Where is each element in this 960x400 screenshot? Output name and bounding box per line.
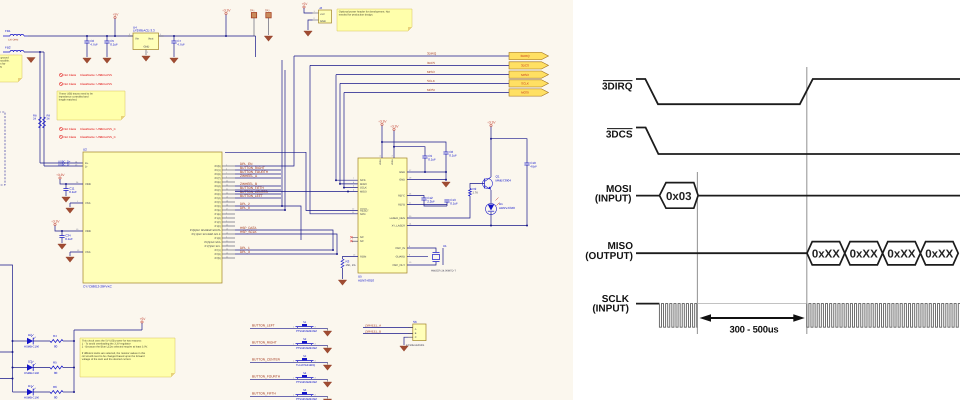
wire +5V rail [28, 36, 256, 57]
power +5V J4 [302, 2, 309, 8]
svg-text:OSC_OUT: OSC_OUT [392, 264, 405, 267]
svg-text:(INPUT): (INPUT) [595, 194, 632, 205]
wire net MISO [336, 74, 509, 76]
capacitor C8 [382, 142, 446, 181]
wire MOSI drop [343, 93, 358, 189]
ground R3 [338, 280, 346, 285]
ground C7 [170, 58, 178, 63]
svg-text:REFB: REFB [398, 204, 405, 207]
net class directive USBCLASS 2 [59, 82, 112, 86]
ground near FB [0, 0, 1, 1]
svg-text:ClassName: USBCLASS_C: ClassName: USBCLASS_C [80, 127, 116, 131]
U2 pin VSS 13 [70, 249, 91, 256]
crystal X1 AWSCR [407, 244, 456, 273]
svg-text:12: 12 [226, 244, 228, 247]
svg-text:80: 80 [54, 395, 58, 399]
svg-text:S1: S1 [303, 321, 307, 324]
svg-text:R5: R5 [53, 360, 57, 364]
wire net SCLK [340, 82, 509, 84]
wire U5 GND pins [407, 171, 447, 181]
svg-text:C: C [415, 336, 417, 339]
note LED power [80, 338, 175, 377]
wire U2 MOSI long [235, 191, 358, 193]
svg-text:MISO: MISO [360, 183, 367, 186]
net label ZWHEEL_B wire [363, 329, 413, 333]
svg-text:BUTTON_LEFT: BUTTON_LEFT [252, 324, 275, 328]
data bubble MISO 0xXX #2 [845, 242, 883, 265]
power +3.3V U2 VDD2 [51, 220, 60, 226]
svg-text:+5V: +5V [302, 2, 309, 6]
svg-text:2 - Because the Blue LEDs sele: 2 - Because the Blue LEDs selected requi… [82, 346, 148, 349]
svg-text:P0[4]: P0[4] [215, 185, 221, 188]
svg-text:Net Class: Net Class [64, 135, 77, 139]
svg-text:0.1uF: 0.1uF [428, 157, 436, 161]
signal label 3DCS [606, 129, 633, 141]
svg-text:P1[6]: P1[6] [215, 213, 221, 216]
svg-text:9: 9 [226, 236, 227, 239]
port SCLK [509, 80, 549, 87]
resistor R3 [341, 257, 358, 280]
net class directive USBCLASS 1 [59, 73, 112, 77]
regulator U4 LP2985 [128, 25, 164, 55]
svg-text:300 - 500us: 300 - 500us [729, 325, 778, 336]
net label BUTTON_FOURTH [240, 170, 269, 174]
wire DPL_2 [235, 206, 301, 240]
svg-text:S4: S4 [303, 372, 307, 375]
svg-text:HSMB-C190: HSMB-C190 [24, 397, 40, 400]
ground TP2 [264, 36, 272, 41]
wire SCLK baseline [636, 303, 659, 305]
ground S6 [400, 346, 408, 351]
svg-text:GUARD: GUARD [396, 255, 405, 258]
note power header [337, 9, 412, 31]
svg-text:P1[1]/GC SCL/BSP-SCLK: P1[1]/GC SCL/BSP-SCLK [192, 233, 221, 236]
U5 top pin labels [379, 155, 394, 166]
wire 3DCS waveform [636, 128, 960, 155]
IC U2 CY7C68013 [83, 148, 222, 289]
svg-text:+3.3V: +3.3V [487, 121, 496, 125]
note grounding [0, 55, 22, 82]
svg-text:4: 4 [226, 212, 227, 215]
wire HSP_SCLK [235, 234, 337, 254]
svg-text:P0[3]: P0[3] [215, 173, 221, 176]
svg-text:(OUTPUT): (OUTPUT) [585, 251, 633, 262]
resistor R6 [50, 385, 75, 400]
svg-text:P2[6]: P2[6] [215, 209, 221, 212]
svg-text:15: 15 [226, 228, 228, 231]
switch S4 BUTTON_FOURTH [250, 372, 328, 384]
U2 pins D+ D- [58, 160, 89, 168]
svg-text:25: 25 [226, 224, 228, 227]
wire encoder common [404, 337, 408, 345]
wire DPL_0 [235, 209, 285, 211]
svg-text:0xXX: 0xXX [812, 249, 840, 261]
svg-text:6: 6 [226, 164, 227, 167]
wire net 3DIRQ [294, 55, 509, 57]
capacitor C5 [104, 39, 118, 46]
svg-text:0xXX: 0xXX [925, 249, 953, 261]
svg-text:VDD: VDD [85, 230, 91, 233]
svg-text:D3: D3 [28, 359, 32, 363]
net class directive USBCLASS_C 1 [59, 127, 115, 131]
wire VDD3 a [381, 126, 383, 158]
svg-text:GND: GND [320, 20, 326, 23]
svg-text:R2: R2 [473, 187, 477, 191]
LED D3 HSMB-C190 [13, 359, 51, 375]
svg-text:voltage of the LED and the des: voltage of the LED and the desired curre… [82, 358, 132, 361]
svg-text:18: 18 [226, 200, 228, 203]
ground C8 [442, 182, 450, 187]
svg-text:21: 21 [226, 188, 228, 191]
svg-text:FB1: FB1 [5, 29, 11, 33]
svg-text:(INPUT): (INPUT) [592, 304, 629, 315]
resistor R5 [50, 360, 75, 375]
svg-text:D4: D4 [28, 384, 32, 388]
svg-text:ClassName: USBCLASS: ClassName: USBCLASS [80, 82, 112, 86]
wire HSP_DATA [235, 230, 333, 250]
svg-text:BUTTON_RIGHT: BUTTON_RIGHT [252, 341, 277, 345]
svg-text:0x03: 0x03 [666, 191, 692, 203]
svg-text:3DIRQ: 3DIRQ [520, 54, 530, 58]
svg-text:LASER_NEN: LASER_NEN [390, 217, 406, 220]
svg-text:R3: R3 [346, 260, 350, 264]
wire SCLK idle level [697, 303, 806, 305]
wire 3DIRQ waveform [636, 79, 960, 104]
data bubble 0x03 [660, 183, 699, 209]
net label ZWHEEL_B [240, 182, 257, 186]
svg-text:2.2uF: 2.2uF [427, 199, 435, 203]
laser diode D1 ADNV-6340 [486, 190, 516, 226]
svg-text:10: 10 [226, 252, 228, 255]
power +5V [113, 13, 120, 19]
wire U2 to U5 RESET [225, 152, 358, 210]
svg-text:ClassName: USBCLASS_C: ClassName: USBCLASS_C [80, 135, 116, 139]
net label HSP_SCLK [240, 230, 258, 234]
svg-text:15K, 1%: 15K, 1% [346, 264, 357, 267]
resistor R4 [50, 334, 75, 349]
capacitor C7 [173, 36, 175, 57]
svg-text:J4: J4 [319, 6, 323, 10]
svg-text:BUTTON_CENTER: BUTTON_CENTER [252, 358, 281, 362]
svg-text:REFC: REFC [398, 195, 405, 198]
svg-text:GND: GND [144, 46, 150, 49]
signal label 3DIRQ [602, 81, 633, 93]
wire bus vertical a [281, 60, 283, 207]
switch S3 BUTTON_CENTER [250, 355, 328, 367]
svg-text:VDD: VDD [85, 183, 91, 186]
wire J4 +5V [304, 8, 313, 13]
svg-text:5: 5 [226, 176, 227, 179]
svg-text:Net Class: Net Class [64, 73, 77, 77]
resistor R8 [33, 115, 41, 129]
svg-text:P1[2]: P1[2] [215, 221, 221, 224]
ground S3 [323, 365, 331, 370]
svg-text:22: 22 [226, 184, 228, 187]
net label ZWHEEL_A [240, 174, 258, 178]
capacitor C7 [171, 39, 185, 46]
power +3.3V [222, 9, 231, 15]
svg-text:NCS: NCS [360, 179, 366, 182]
svg-text:3DCS: 3DCS [606, 130, 633, 141]
switch S5 BUTTON_FIFTH [250, 389, 328, 400]
junction dots on rail [86, 35, 227, 37]
svg-text:27: 27 [226, 208, 228, 211]
ground C34 [58, 244, 66, 249]
svg-text:VDD3: VDD3 [379, 159, 382, 165]
wire SCLK burst 2 [807, 304, 960, 328]
ground VSS1 [66, 208, 74, 213]
svg-text:P1[7]/GC SCL: P1[7]/GC SCL [205, 245, 221, 248]
capacitor C6 [84, 39, 98, 46]
svg-text:SCLK: SCLK [427, 79, 435, 83]
svg-text:8: 8 [226, 168, 227, 171]
svg-text:GND: GND [399, 179, 405, 182]
wire net MOSI [344, 92, 509, 94]
net label DPL_EN [240, 162, 253, 166]
ground C6 [83, 58, 91, 63]
svg-text:DPL_3: DPL_3 [240, 250, 250, 254]
svg-text:20: 20 [226, 192, 228, 195]
svg-text:2: 2 [226, 220, 227, 223]
svg-text:3DCS: 3DCS [427, 61, 435, 65]
svg-text:P2[0]: P2[0] [215, 205, 221, 208]
U2 pin VDD 26 [76, 181, 91, 186]
svg-text:ClassName: USBCLASS: ClassName: USBCLASS [80, 73, 112, 77]
data bubble MISO 0xXX #1 [807, 242, 845, 265]
svg-text:MOSI: MOSI [427, 88, 435, 92]
svg-text:LP2985ACE-3.3: LP2985ACE-3.3 [133, 29, 155, 33]
svg-text:BUTTON_LEFT: BUTTON_LEFT [240, 194, 263, 198]
svg-text:HSMB-C190: HSMB-C190 [24, 372, 40, 375]
svg-text:USBC_D-: USBC_D- [58, 164, 70, 167]
wire +5V LED stem [141, 323, 143, 330]
transistor Q1 MMBT3904 [483, 175, 512, 191]
net label DPL_2 [240, 202, 250, 206]
net label MOSI wire [427, 88, 435, 92]
svg-text:P1[0]: P1[0] [215, 225, 221, 228]
svg-text:Net Class: Net Class [64, 82, 77, 86]
ground FB area [27, 58, 35, 63]
svg-text:+3.3V: +3.3V [222, 9, 231, 13]
svg-text:VSS: VSS [85, 202, 91, 205]
ground VSS2 [66, 257, 74, 262]
U5 pin labels [360, 171, 405, 267]
wire MISO drop [335, 75, 358, 182]
net label BUTTON_LEFT [240, 194, 263, 198]
svg-text:P2[4]: P2[4] [215, 197, 221, 200]
svg-text:0.1uF: 0.1uF [110, 42, 118, 46]
svg-text:P2[1]: P2[1] [215, 249, 221, 252]
svg-text:+5V: +5V [113, 13, 120, 17]
data bubble MISO 0xXX #3 [883, 242, 921, 265]
ground S2 [323, 348, 331, 353]
svg-text:P0[2]: P0[2] [215, 189, 221, 192]
svg-text:VDD3: VDD3 [391, 159, 394, 165]
wire SCLK burst 1 [659, 304, 697, 328]
net label DPL_0 [240, 206, 250, 210]
svg-text:MISO: MISO [521, 73, 529, 77]
capacitor C10 [491, 139, 527, 226]
svg-text:MMBT3904: MMBT3904 [496, 179, 512, 183]
power +3.3V U5 b [390, 125, 399, 131]
svg-text:ADNV-6340: ADNV-6340 [499, 206, 515, 210]
switch S2 BUTTON_RIGHT [250, 338, 328, 350]
svg-text:0.1uF: 0.1uF [450, 201, 458, 205]
net class directive USBCLASS_C 2 [59, 135, 115, 139]
capacitor C5 [106, 36, 108, 57]
resistor R9 [43, 115, 51, 129]
svg-text:BUTTON_FOURTH: BUTTON_FOURTH [252, 375, 281, 379]
svg-text:GND: GND [399, 171, 405, 174]
svg-text:P1[4]: P1[4] [215, 217, 221, 220]
power +3.3V Q1 [487, 121, 496, 127]
svg-text:Net Class: Net Class [64, 127, 77, 131]
svg-text:P0[1]: P0[1] [215, 169, 221, 172]
note USB traces [57, 91, 125, 120]
net label BUTTON_RIGHT [240, 166, 265, 170]
LED D2 HSMB-C190 [13, 333, 51, 349]
svg-text:MOSI: MOSI [521, 91, 529, 95]
svg-text:AWSCR-24.00MTD-T: AWSCR-24.00MTD-T [431, 270, 456, 273]
U2 pin VSS 1 [70, 200, 91, 207]
svg-text:XY_LASER: XY_LASER [392, 225, 406, 228]
svg-text:S5: S5 [303, 389, 307, 392]
capacitor C12 [407, 196, 447, 207]
svg-text:3DCS: 3DCS [521, 64, 529, 68]
wire J4 gnd [308, 20, 313, 30]
wire 3DCS to NPD [310, 65, 358, 213]
U2 pin VDD 10 [76, 228, 91, 233]
svg-text:7: 7 [226, 172, 227, 175]
svg-text:24: 24 [226, 248, 228, 251]
power +3.3V U5 a [378, 120, 387, 126]
svg-text:R4: R4 [53, 334, 57, 338]
port MOSI [509, 89, 549, 96]
svg-text:NPD: NPD [360, 213, 366, 216]
svg-text:0xXX: 0xXX [850, 249, 878, 261]
svg-text:80: 80 [54, 344, 58, 348]
signal label SCLK (INPUT) [592, 294, 629, 315]
wire +3.3V stem [225, 15, 227, 36]
wire U2 net stubs [235, 170, 281, 198]
net label 3DCS wire [427, 61, 435, 65]
svg-text:SCLK: SCLK [521, 82, 529, 86]
svg-text:0.1uF: 0.1uF [65, 237, 73, 241]
svg-text:D2: D2 [28, 333, 32, 337]
test point TP2 [265, 10, 271, 36]
svg-text:P0[6]: P0[6] [215, 181, 221, 184]
svg-text:ADNS-6010: ADNS-6010 [358, 279, 374, 283]
capacitor C9 [394, 147, 425, 172]
svg-text:Vin: Vin [135, 38, 139, 41]
svg-text:+3.3V: +3.3V [51, 220, 60, 224]
svg-text:P1[5]/GC SDA/BSP-SDATA: P1[5]/GC SDA/BSP-SDATA [190, 229, 221, 232]
capacitor C13 [407, 202, 447, 206]
power +3.3V U2 VDD1 [56, 173, 65, 179]
ground S5 [323, 399, 331, 400]
svg-text:PTS645SM43SM: PTS645SM43SM [296, 330, 318, 333]
svg-text:TL1107AF180Q: TL1107AF180Q [296, 364, 315, 367]
net label SCLK wire [427, 79, 435, 83]
ground U4 [142, 56, 150, 61]
port MISO [509, 71, 549, 78]
resistor R2 [407, 184, 485, 219]
svg-text:CY7C68013-28PVXC: CY7C68013-28PVXC [83, 285, 113, 289]
U5 pin numbers [352, 169, 412, 264]
svg-text:S3: S3 [303, 355, 307, 358]
IC U5 ADNS-6010 [358, 158, 407, 283]
net label DPL_3 [240, 250, 250, 254]
svg-text:P0[0]: P0[0] [215, 193, 221, 196]
svg-text:11: 11 [226, 240, 228, 243]
svg-text:0.1uF: 0.1uF [69, 190, 77, 194]
wire DPL_EN / 3DIRQ [235, 56, 294, 166]
svg-text:NC: NC [360, 236, 364, 239]
data bubble MISO 0xXX #4 [920, 242, 958, 265]
wire LED feed bus [0, 265, 14, 392]
dimension arrow 300-500us [700, 314, 805, 335]
wire net 3DCS [310, 64, 509, 66]
svg-text:P2[2]: P2[2] [215, 201, 221, 204]
wire LED +5V bus [74, 330, 142, 392]
svg-text:S2: S2 [303, 338, 307, 341]
wire MISO waveform [636, 252, 807, 254]
svg-text:U2: U2 [83, 148, 87, 152]
wire DPL_3 [235, 253, 338, 255]
ferrite bead FB2 [3, 46, 24, 58]
svg-text:47pF: 47pF [530, 164, 537, 168]
wire VDD1 [60, 179, 83, 185]
svg-text:HSMB-C190: HSMB-C190 [24, 346, 40, 349]
ground J4 [304, 31, 312, 36]
capacitor C11 [65, 184, 67, 196]
svg-text:4.7uF: 4.7uF [177, 42, 185, 46]
svg-text:+5V: +5V [320, 13, 325, 16]
wire +5V stem [114, 19, 116, 36]
svg-text:needed for production design.: needed for production design. [339, 14, 374, 17]
port 3DIRQ [509, 52, 549, 59]
capacitor C13 [444, 198, 458, 205]
svg-text:OSC_IN: OSC_IN [395, 247, 405, 250]
svg-text:TP2: TP2 [265, 10, 270, 13]
power +5V LEDs [140, 317, 147, 323]
wire DPL_1 [235, 249, 334, 251]
svg-text:PTS645SM43SM: PTS645SM43SM [296, 347, 318, 350]
svg-text:RSIN: RSIN [360, 256, 366, 259]
svg-text:ZWHEEL_A: ZWHEEL_A [240, 174, 258, 178]
svg-text:26: 26 [226, 256, 228, 259]
svg-text:120 OHM: 120 OHM [8, 38, 18, 41]
header J4 [313, 6, 332, 23]
svg-text:4.7uF: 4.7uF [90, 42, 98, 46]
svg-text:+3.3V: +3.3V [378, 120, 387, 124]
svg-text:+3.3V: +3.3V [390, 125, 399, 129]
encoder S6 [406, 320, 426, 347]
wire VDD3 b [393, 131, 395, 158]
svg-text:0.1uF: 0.1uF [449, 153, 457, 157]
svg-text:P1[3]: P1[3] [215, 237, 221, 240]
ground C11 [62, 197, 70, 202]
LED D4 HSMB-C190 [13, 384, 51, 400]
capacitor C12 [421, 196, 435, 203]
capacitor C6 [86, 36, 88, 57]
net label 3DIRQ wire [427, 52, 437, 56]
svg-text:EC10E1220301: EC10E1220301 [406, 344, 425, 347]
svg-text:ZWHEEL_B: ZWHEEL_B [365, 329, 381, 333]
U2 right-side pins [190, 164, 235, 261]
svg-text:80: 80 [54, 371, 58, 375]
svg-text:length matched.: length matched. [59, 99, 78, 102]
